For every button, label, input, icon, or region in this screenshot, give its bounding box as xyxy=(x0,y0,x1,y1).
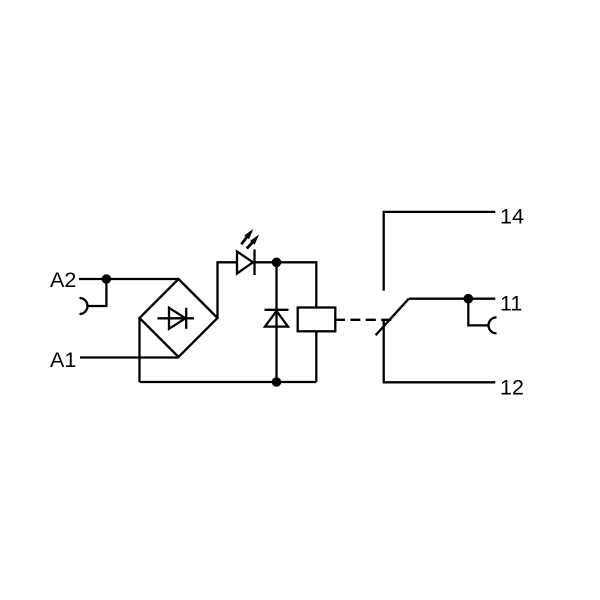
svg-text:11: 11 xyxy=(500,292,522,316)
svg-text:A1: A1 xyxy=(50,348,76,372)
contact lever (movable contact) xyxy=(376,299,409,336)
LED D1 xyxy=(237,250,255,276)
wire to terminal 11 xyxy=(409,298,496,300)
bottom rail wire xyxy=(140,381,317,383)
wire from junction down to 11 socket xyxy=(468,299,488,326)
freewheel diode D2 xyxy=(265,310,289,327)
wire to terminal 12 xyxy=(383,381,496,383)
bridge rectifier B1 xyxy=(140,279,218,357)
svg-text:12: 12 xyxy=(500,376,524,400)
wire coil bottom lead to rail xyxy=(315,331,317,382)
socket contact at A2 xyxy=(80,298,88,314)
wire bridge plus output up to LED line xyxy=(218,262,238,318)
wire A1 to bridge bottom corner xyxy=(80,356,179,358)
svg-text:A2: A2 xyxy=(50,268,76,292)
wire bridge minus output down to bottom rail xyxy=(138,318,140,382)
node junction on A2 wire xyxy=(102,274,112,284)
node junction on LED wire xyxy=(272,258,282,268)
node junction on 11 wire xyxy=(464,294,474,304)
wire A2 to bridge top corner xyxy=(79,278,179,280)
wire from junction down to A2 socket xyxy=(88,279,107,306)
actuator dashed link coil to contact xyxy=(335,319,391,321)
wire to terminal 14 xyxy=(383,211,496,213)
socket contact at 11 xyxy=(489,317,497,333)
wire LED cathode to coil lead xyxy=(253,262,316,307)
relay coil K1 xyxy=(298,308,336,332)
freewheel diode D2 branch wire xyxy=(275,262,277,382)
fixed contact stub for 14 xyxy=(383,212,385,291)
node junction on bottom rail xyxy=(272,377,282,387)
LED light emission arrow 1 xyxy=(241,229,253,244)
LED light emission arrow 2 xyxy=(247,235,259,249)
fixed contact stub for 12 xyxy=(383,321,385,382)
svg-text:14: 14 xyxy=(500,205,524,229)
